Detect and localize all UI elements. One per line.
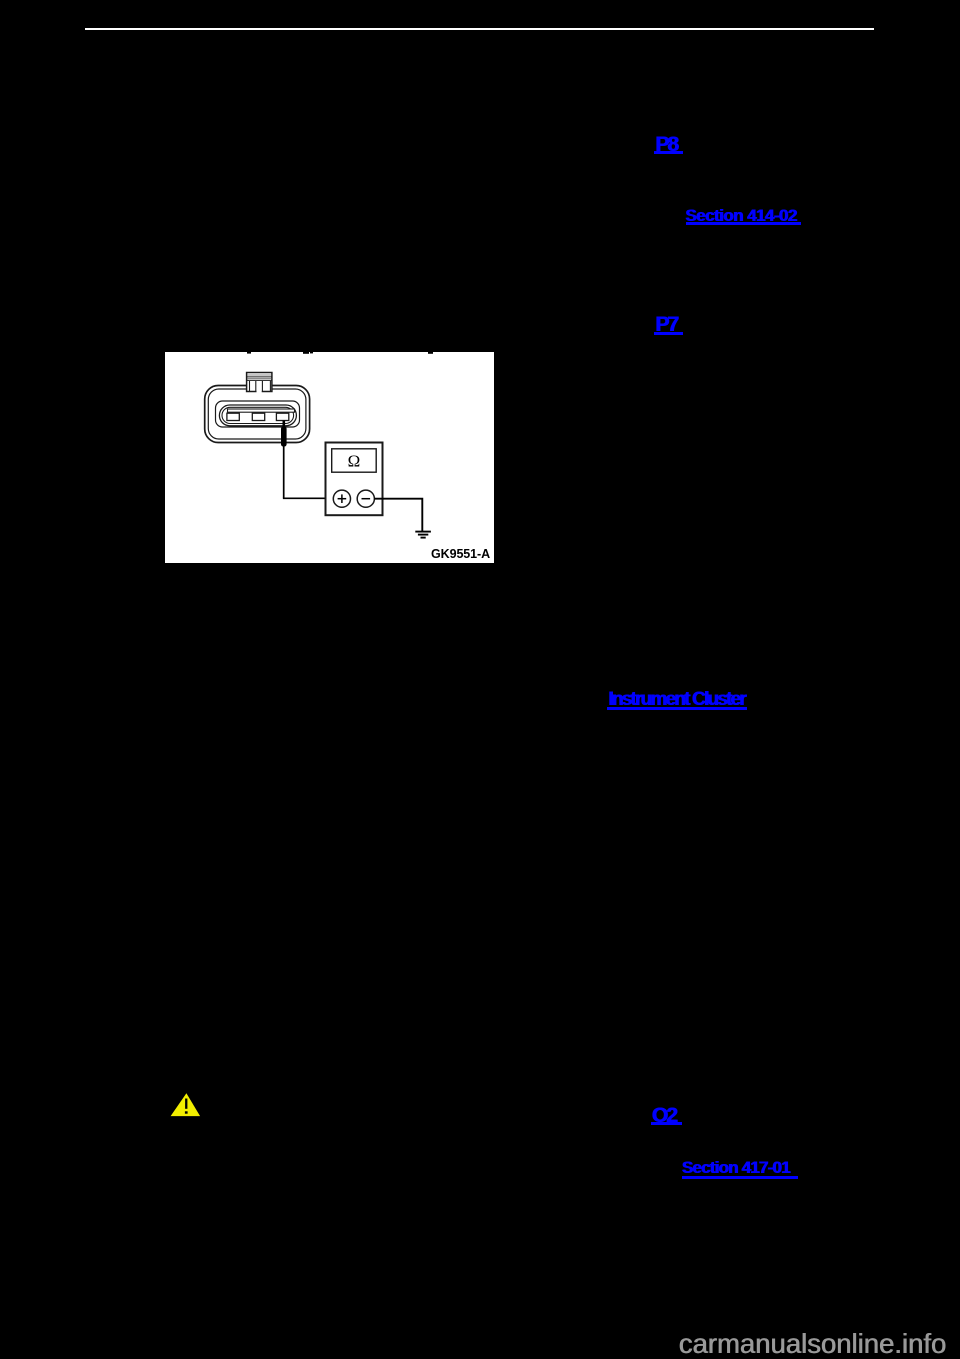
connector body outer shell — [205, 386, 310, 443]
key bar above pins — [228, 409, 295, 412]
diagram figure: connector resistance test (white panel) — [165, 352, 494, 563]
connector body inner shell line — [208, 389, 306, 439]
ohmmeter body — [326, 443, 383, 516]
pin 1 — [227, 413, 239, 420]
link Section 414-02 — [685, 207, 796, 224]
probe lead wire down — [283, 446, 285, 498]
locking tab on top of connector — [247, 373, 272, 393]
link Section 417-01 — [682, 1159, 790, 1176]
ohmmeter display window — [332, 449, 377, 472]
link O2 — [652, 1105, 676, 1126]
ground lead wire — [374, 499, 422, 532]
watermark carmanualsonline.info — [679, 1330, 947, 1358]
top horizontal rule — [85, 28, 874, 30]
warning triangle icon — [169, 1092, 202, 1118]
connector seal stadium inner — [222, 407, 294, 423]
link P7 — [655, 314, 677, 335]
cropped text remnants at top edge — [247, 352, 433, 354]
test probe in pin 3 — [281, 421, 287, 447]
link Instrument Cluster — [608, 690, 745, 709]
svg-text:Ω: Ω — [348, 452, 361, 471]
positive terminal — [333, 490, 350, 507]
connector seal stadium outer — [219, 405, 296, 426]
negative terminal — [357, 490, 374, 507]
svg-text:GK9551-A: GK9551-A — [431, 547, 490, 561]
ground symbol — [415, 532, 431, 538]
pin 3 — [276, 413, 288, 420]
connector face frame — [216, 401, 300, 427]
pin 2 — [252, 413, 264, 420]
link P8 — [655, 134, 677, 155]
probe lead wire to ohmmeter — [283, 497, 334, 499]
